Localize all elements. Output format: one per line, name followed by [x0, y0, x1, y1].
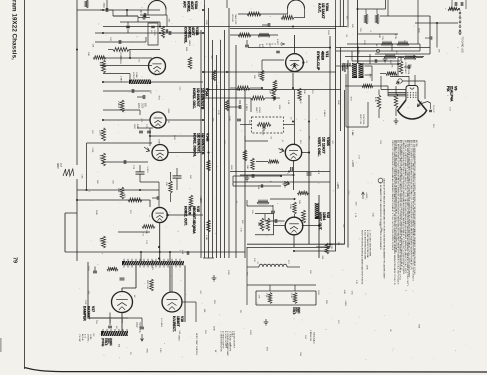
- wire hold box: [240, 124, 252, 126]
- vertical feed x430: [429, 16, 431, 54]
- svg-text:33K: 33K: [189, 175, 191, 179]
- svg-text:470K: 470K: [217, 110, 219, 115]
- svg-text:470K: 470K: [394, 34, 396, 40]
- svg-text:B+ 8.2 KV: B+ 8.2 KV: [151, 260, 153, 270]
- svg-text:P-P: P-P: [59, 163, 62, 167]
- resistor R80: [150, 279, 154, 291]
- wire box feeds: [269, 285, 271, 291]
- svg-text:SYNC.CLIP: SYNC.CLIP: [316, 51, 320, 71]
- resistor R83 horiz: [384, 55, 396, 59]
- wire pot to neck: [402, 80, 425, 82]
- wire left top horizontal: [77, 9, 160, 11]
- resistor R73: [268, 293, 272, 304]
- component cluster box (phase det): [148, 23, 158, 45]
- agc bus long y26.5: [103, 26, 230, 28]
- wire vert out top: [294, 214, 296, 217]
- wire v10b left: [256, 161, 268, 163]
- rail y47: [336, 47, 430, 49]
- resistor R68: [268, 160, 279, 164]
- capacitor C67: [251, 174, 253, 178]
- svg-text:47K: 47K: [299, 100, 301, 104]
- svg-text:1/2 12AX7: 1/2 12AX7: [322, 137, 326, 154]
- CRT grid dashes: [407, 92, 409, 98]
- wire v13b left: [100, 65, 152, 67]
- wire V15 rows: [149, 215, 152, 217]
- wire big cap: [139, 165, 141, 172]
- resistor R48 vert: [169, 181, 173, 193]
- wire V14A to bus: [167, 119, 204, 121]
- wire bottom left rail: [88, 317, 142, 319]
- wire stub: [126, 10, 128, 16]
- svg-text:HORIZ. CENT. CONTROL: HORIZ. CENT. CONTROL: [195, 333, 197, 355]
- svg-text:4.7K: 4.7K: [317, 170, 319, 175]
- svg-text:+410V: +410V: [351, 160, 354, 167]
- gang lug dashed line: [459, 10, 461, 33]
- svg-text:470K: 470K: [374, 97, 376, 103]
- svg-text:100K: 100K: [366, 265, 368, 270]
- resistor R76 vert: [394, 94, 398, 108]
- bus resistor Rb2: [225, 100, 229, 111]
- svg-text:HORIZ. OSC.: HORIZ. OSC.: [192, 88, 196, 109]
- svg-text:1 MEG: 1 MEG: [245, 104, 247, 111]
- svg-text:100K: 100K: [212, 326, 214, 331]
- vert stub x398: [397, 58, 399, 77]
- svg-text:U MEG: U MEG: [119, 52, 122, 60]
- svg-text:33K: 33K: [351, 132, 353, 136]
- svg-text:DAMPER: DAMPER: [82, 306, 86, 321]
- node dot A: [126, 9, 128, 11]
- capacitor C80: [93, 270, 97, 272]
- svg-text:100K: 100K: [228, 116, 230, 122]
- svg-text:3.9K: 3.9K: [287, 100, 289, 105]
- resistor R86 vert: [298, 88, 302, 101]
- bus wire B5: [216, 55, 218, 258]
- svg-text:2.2M: 2.2M: [205, 235, 207, 240]
- rail y54: [375, 53, 430, 55]
- svg-text:HORIZ. DISCH.: HORIZ. DISCH.: [192, 133, 196, 157]
- svg-text:79: 79: [12, 257, 18, 263]
- svg-text:365V: 365V: [56, 163, 59, 169]
- wire flyback top rail: [65, 251, 245, 253]
- rail y51: [336, 50, 420, 52]
- wire hold to v10b: [294, 90, 296, 144]
- svg-text:VERT: VERT: [255, 107, 257, 113]
- wire T3 leads: [336, 65, 352, 67]
- bus wire B1: [200, 30, 202, 258]
- wire y56 rail: [345, 56, 424, 58]
- resistor R75 vert: [377, 95, 381, 109]
- resistor R74: [293, 293, 297, 304]
- svg-text:56K: 56K: [298, 200, 300, 204]
- interconnect y171: [230, 171, 330, 173]
- svg-text:12K: 12K: [438, 49, 440, 53]
- rail y16 top: [380, 15, 430, 17]
- wire v15 row: [77, 199, 150, 201]
- ground symbols misc: [245, 175, 250, 181]
- resistor R87: [298, 191, 309, 195]
- svg-text:47K: 47K: [99, 238, 101, 243]
- tube V11 sync clip: [286, 54, 304, 72]
- svg-text:CONTROL: CONTROL: [184, 27, 188, 43]
- ground sync: [283, 181, 288, 187]
- wire ladder y110: [103, 109, 140, 111]
- resistor R79: [362, 84, 373, 87]
- wire vert right loop: [246, 247, 248, 305]
- svg-text:12K: 12K: [92, 44, 94, 48]
- wire y33 horizontal: [95, 32, 203, 34]
- resistor R84 under V13B label: [188, 57, 192, 69]
- capacitor C40: [105, 8, 107, 12]
- svg-text:COILS: COILS: [292, 307, 295, 315]
- wire V15 plate: [159, 223, 161, 261]
- svg-text:33K: 33K: [167, 18, 169, 22]
- capacitor C69: [374, 59, 376, 63]
- svg-text:SOUND: SOUND: [231, 14, 233, 22]
- svg-text:56K: 56K: [303, 90, 305, 94]
- svg-text:3900: 3900: [133, 124, 135, 130]
- resistor R52 under V15: [142, 225, 155, 229]
- resistor R64: [260, 70, 264, 81]
- wire ladder y91: [103, 90, 150, 92]
- arrow +410V: [362, 192, 364, 199]
- svg-text:HORIZ: HORIZ: [132, 72, 134, 79]
- wire y34 right: [358, 33, 399, 35]
- top edge stubs: [106, 0, 108, 10]
- left border bus wire: [76, 0, 78, 165]
- svg-text:TAKE OFF: TAKE OFF: [234, 14, 237, 25]
- svg-text:.0039: .0039: [167, 108, 169, 114]
- alignment legend circled letter: [378, 178, 383, 183]
- rail y44: [347, 43, 420, 45]
- svg-text:TRANS.: TRANS.: [341, 63, 344, 72]
- svg-text:(YOKE): (YOKE): [101, 338, 104, 347]
- svg-text:1500: 1500: [102, 3, 104, 9]
- svg-text:C- 1ST VIDEO GRID RETURN: C- 1ST VIDEO GRID RETURN: [369, 230, 371, 257]
- resistor R66: [251, 96, 265, 100]
- svg-text:220K: 220K: [257, 72, 259, 78]
- bus wire R3: [340, 47, 342, 131]
- resistor R67 vert: [273, 80, 277, 91]
- tube V14B: [152, 145, 168, 161]
- svg-text:27K: 27K: [223, 140, 225, 144]
- wire grid row: [270, 198, 295, 200]
- resistor R40 vertical: [102, 60, 106, 73]
- svg-text:4.7K: 4.7K: [378, 222, 380, 227]
- resistor R50 slant: [93, 56, 106, 60]
- svg-text:CONTROL: CONTROL: [407, 64, 409, 75]
- wire V14B to bus: [168, 152, 201, 154]
- damper loop wire: [88, 262, 128, 318]
- wire y23 to gang: [415, 22, 458, 24]
- resistor R63: [258, 33, 270, 37]
- resistor R90: [364, 14, 367, 24]
- dashed box VERT HOLD: [252, 117, 284, 133]
- svg-text:33K: 33K: [378, 34, 380, 38]
- svg-text:100K: 100K: [289, 204, 291, 210]
- svg-text:.047: .047: [139, 9, 141, 14]
- long bus pair y26-28: [230, 26, 347, 28]
- wire V11 bottom: [292, 73, 294, 90]
- svg-text:100K: 100K: [205, 20, 207, 25]
- flyback transformer hatched bar: [122, 261, 184, 265]
- svg-text:+410V: +410V: [365, 192, 367, 199]
- svg-text:270K: 270K: [91, 148, 93, 153]
- dashed pointer arrow: [266, 43, 284, 45]
- capacitor C61: [245, 44, 249, 46]
- svg-text:47K: 47K: [91, 130, 93, 134]
- wire y141 center: [245, 140, 268, 142]
- svg-text:1 W: 1 W: [355, 280, 357, 284]
- capacitor C51 above V15: [156, 196, 158, 200]
- svg-text:PIX: PIX: [446, 86, 450, 92]
- svg-text:120K: 120K: [99, 130, 101, 136]
- svg-text:12K: 12K: [272, 97, 274, 101]
- wire under flyback: [135, 266, 137, 289]
- resistor R65: [236, 86, 250, 90]
- svg-text:STAB: STAB: [135, 72, 138, 78]
- svg-text:C- VIDEO DETECTOR: C- VIDEO DETECTOR: [220, 331, 222, 352]
- resistor R78: [386, 72, 397, 76]
- svg-text:10K: 10K: [165, 182, 167, 186]
- svg-text:1 MEG: 1 MEG: [117, 101, 119, 108]
- svg-text:1 MEG: 1 MEG: [323, 110, 325, 117]
- bus wire B9: [235, 45, 237, 258]
- svg-text:1500: 1500: [140, 103, 142, 109]
- vert size box: [255, 214, 274, 235]
- bus x357: [357, 0, 359, 63]
- interconnect y72: [203, 71, 336, 73]
- junction dots center: [202, 32, 204, 34]
- svg-text:CONTRAST: CONTRAST: [404, 62, 407, 75]
- V14B cathode arrow: [144, 147, 150, 152]
- yoke ticks: [102, 329, 104, 331]
- bus resistor Rb3: [243, 150, 247, 161]
- height box sides: [345, 74, 347, 127]
- tube V13A (top, cut): [148, 1, 166, 10]
- resistor R47: [128, 198, 142, 202]
- svg-text:VERT. OSC.: VERT. OSC.: [317, 137, 321, 156]
- svg-text:VERT: VERT: [261, 130, 263, 136]
- svg-text:L HORIZ: L HORIZ: [86, 334, 88, 342]
- svg-text:R80 5.6K: R80 5.6K: [146, 280, 148, 290]
- wire v14 join: [149, 128, 151, 146]
- resistor R71 vert: [302, 210, 306, 223]
- svg-text:4.7K: 4.7K: [239, 228, 241, 233]
- tube V17 damper: [112, 292, 133, 313]
- interconnect y182: [233, 181, 330, 183]
- svg-text:1 MEG: 1 MEG: [120, 76, 122, 83]
- wire V11 left: [262, 59, 284, 61]
- pot in dashed box: [257, 123, 271, 127]
- svg-text:Safety Adjust: Safety Adjust: [312, 332, 315, 344]
- tube V16 HV rect: [162, 292, 182, 312]
- capacitor C43: [126, 25, 130, 27]
- capacitor C62: [238, 105, 240, 109]
- wire y98 center: [203, 97, 251, 99]
- svg-text:33K: 33K: [351, 24, 353, 28]
- svg-text:HOLD: HOLD: [258, 107, 260, 113]
- vert stub x358: [357, 48, 359, 65]
- wire ladder y143: [87, 142, 153, 144]
- svg-text:120K: 120K: [363, 40, 365, 45]
- svg-text:6.8K: 6.8K: [276, 39, 278, 44]
- osc bus x309: [308, 95, 310, 244]
- svg-text:22K: 22K: [112, 180, 114, 184]
- tube V15 horiz out: [152, 207, 167, 222]
- bus wire B8: [228, 8, 230, 258]
- capacitor C63: [290, 167, 292, 171]
- resistor R43: [120, 100, 124, 112]
- svg-text:V10B: V10B: [326, 137, 330, 146]
- bus wire B10: [244, 90, 246, 258]
- wire y176 center: [233, 175, 281, 177]
- scan speckle noise: [205, 55, 206, 57]
- svg-text:39K: 39K: [246, 165, 248, 169]
- svg-text:HORIZ. OUT.: HORIZ. OUT.: [183, 206, 187, 226]
- svg-text:1.5K: 1.5K: [309, 330, 311, 335]
- plate bus x319: [318, 195, 320, 258]
- svg-text:560K: 560K: [95, 210, 97, 215]
- svg-text:H.V.RECT.: H.V.RECT.: [172, 316, 176, 332]
- wire ladder y73: [103, 73, 130, 75]
- svg-text:6.8K: 6.8K: [343, 290, 345, 295]
- svg-text:6.8K: 6.8K: [81, 174, 83, 179]
- resistor R70 vert: [293, 202, 297, 214]
- capacitor C65: [407, 65, 409, 69]
- svg-text:MMF: MMF: [136, 124, 138, 130]
- contrast pot vert: [399, 61, 403, 74]
- rail y76: [390, 76, 409, 78]
- wire ladder y22: [120, 21, 160, 23]
- svg-text:CIRCLED LETTERS INDICATE ALIGN: CIRCLED LETTERS INDICATE ALIGNMENT AND T…: [383, 178, 386, 280]
- capacitor C68: [274, 219, 276, 223]
- svg-text:A: A: [379, 182, 383, 184]
- flyback top ticks: [123, 259, 125, 261]
- wire y14: [238, 13, 288, 15]
- CRT feed wires: [388, 92, 406, 94]
- bus wire R2: [294, 20, 336, 251]
- svg-text:22K: 22K: [149, 90, 151, 94]
- wire V12 bottom: [293, 236, 295, 248]
- svg-text:AFC: AFC: [183, 1, 187, 8]
- brightness pot circle: [398, 79, 402, 83]
- resistor R55 vert: [189, 195, 193, 207]
- svg-text:135V: 135V: [249, 330, 251, 335]
- svg-text:39K: 39K: [253, 75, 255, 79]
- node dots sync: [261, 87, 263, 89]
- capacitor C41: [142, 16, 144, 20]
- svg-text:VERT. LIN.: VERT. LIN.: [359, 114, 361, 125]
- vert out coil bar: [315, 203, 319, 219]
- wire ladder y42: [95, 41, 146, 43]
- svg-text:47K: 47K: [391, 64, 393, 68]
- svg-text:9-73: 9-73: [84, 334, 86, 338]
- resistor R46: [120, 187, 124, 199]
- wire V16 side: [182, 301, 196, 303]
- capacitor C64: [271, 210, 275, 212]
- tube V14A: [150, 112, 166, 128]
- page left rule: [24, 0, 26, 369]
- resistor R77: [404, 56, 416, 60]
- yoke coil hatched: [101, 331, 128, 336]
- tube V12 vert out: [285, 217, 303, 235]
- resistor R72 vert: [325, 243, 329, 254]
- resistor R69 vert: [251, 158, 255, 170]
- cathode rail y190: [77, 189, 159, 191]
- long rail pair right: [247, 243, 345, 245]
- CRT bell arrow: [418, 102, 422, 107]
- svg-text:TB: TB: [117, 344, 120, 347]
- svg-text:+135V: +135V: [336, 182, 339, 189]
- svg-text:4BE8: 4BE8: [321, 51, 325, 60]
- resistor R41 vertical: [102, 128, 106, 141]
- capacitor C81: [108, 325, 112, 327]
- rail y64: [360, 63, 400, 65]
- svg-text:CONV: CONV: [89, 334, 91, 340]
- interconnect y47 center: [248, 47, 330, 49]
- test point circle: [376, 49, 379, 52]
- svg-text:V11: V11: [325, 51, 329, 57]
- svg-text:TEST POINTS RECEIVER ALIGNMENT: TEST POINTS RECEIVER ALIGNMENT AND TEST …: [361, 230, 364, 285]
- svg-text:1 MEG: 1 MEG: [177, 335, 179, 342]
- svg-text:LOCK: LOCK: [153, 30, 155, 36]
- svg-text:220K: 220K: [137, 103, 139, 109]
- svg-text:47K: 47K: [257, 295, 259, 299]
- capacitor C45 dual: [139, 130, 143, 132]
- resistor R44: [102, 153, 106, 166]
- capacitor C46 big: [136, 171, 145, 173]
- resistor R81 horiz: [381, 42, 393, 46]
- bus wire R5: [347, 60, 349, 248]
- resistor R49 top left: [85, 0, 88, 8]
- svg-text:ALIGNMENT POINTS INDICATED BY: ALIGNMENT POINTS INDICATED BY CIRCLED LE…: [379, 185, 382, 251]
- resistor R82 horiz: [397, 42, 409, 46]
- wire v10b bottom: [293, 161, 295, 190]
- svg-text:TUNER B+: TUNER B+: [138, 322, 140, 334]
- bus wire B6: [220, 40, 222, 258]
- bus cap Cb1: [237, 118, 241, 120]
- svg-text:82K: 82K: [241, 220, 243, 224]
- interconnect y89: [206, 89, 341, 91]
- svg-text:100K: 100K: [278, 105, 280, 110]
- wire y206: [247, 205, 273, 207]
- svg-text:100K: 100K: [157, 139, 159, 144]
- vert output coil: [259, 264, 287, 267]
- svg-text:CONTROL: CONTROL: [362, 114, 364, 125]
- svg-text:+385V: +385V: [344, 300, 346, 307]
- CRT gun envelope: [406, 86, 418, 101]
- bus x340: [339, 0, 341, 27]
- resistor R85 vert: [272, 88, 276, 101]
- schematic bottom border: [25, 368, 487, 373]
- svg-text:18K: 18K: [96, 180, 98, 184]
- svg-text:47K: 47K: [200, 151, 202, 155]
- svg-text:VERT. OUT.: VERT. OUT.: [318, 212, 322, 231]
- resistor R42 U MEG: [108, 49, 113, 51]
- svg-text:270K: 270K: [84, 300, 86, 305]
- rail y86: [345, 85, 388, 87]
- vert stub x370: [369, 54, 371, 64]
- wire y186 center: [233, 185, 281, 187]
- vert stub x392: [391, 44, 393, 51]
- transformer T3 hatched (vertical bars): [352, 63, 357, 78]
- capacitor C66: [429, 36, 431, 39]
- top right cluster: [454, 2, 456, 6]
- wire left drop to damper area: [64, 213, 66, 252]
- page edge sliver (bottom left): [0, 338, 2, 352]
- bus x343: [343, 0, 345, 27]
- svg-text:ram 19X22 Chassis,: ram 19X22 Chassis,: [11, 0, 18, 60]
